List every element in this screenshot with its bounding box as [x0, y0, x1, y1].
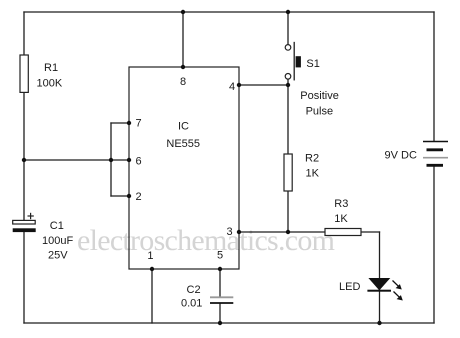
svg-text:7: 7: [136, 117, 142, 129]
svg-text:5: 5: [217, 249, 223, 261]
svg-text:100uF: 100uF: [42, 235, 73, 247]
svg-text:0.01: 0.01: [181, 298, 202, 310]
svg-text:C2: C2: [187, 284, 201, 296]
svg-text:8: 8: [180, 76, 186, 88]
svg-text:1K: 1K: [334, 213, 348, 225]
svg-text:25V: 25V: [48, 250, 68, 262]
svg-text:NE555: NE555: [166, 138, 200, 150]
svg-text:R2: R2: [305, 152, 319, 164]
svg-text:3: 3: [227, 226, 233, 238]
svg-text:electroschematics.com: electroschematics.com: [77, 224, 335, 257]
svg-text:2: 2: [136, 191, 142, 203]
svg-text:C1: C1: [50, 220, 64, 232]
svg-text:R3: R3: [334, 198, 348, 210]
svg-text:R1: R1: [44, 62, 58, 74]
svg-text:Positive: Positive: [300, 90, 339, 102]
svg-text:S1: S1: [306, 58, 319, 70]
svg-text:1: 1: [147, 250, 153, 262]
svg-text:LED: LED: [339, 281, 360, 293]
svg-text:IC: IC: [178, 121, 189, 133]
svg-text:6: 6: [136, 156, 142, 168]
svg-text:4: 4: [229, 81, 235, 93]
svg-text:9V DC: 9V DC: [385, 150, 417, 162]
svg-text:100K: 100K: [37, 78, 63, 90]
svg-text:Pulse: Pulse: [306, 106, 334, 118]
svg-text:1K: 1K: [306, 167, 320, 179]
